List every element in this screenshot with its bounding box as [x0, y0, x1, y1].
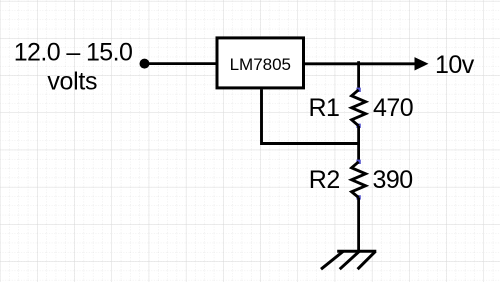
svg-text:12.0 – 15.0: 12.0 – 15.0 — [14, 38, 133, 66]
svg-text:LM7805: LM7805 — [230, 55, 291, 74]
arrow output terminal — [415, 57, 429, 70]
node: R2 top endpoint (blue handle) — [356, 160, 360, 164]
wire input to regulator — [145, 62, 218, 65]
svg-text:volts: volts — [47, 67, 97, 95]
svg-text:470: 470 — [373, 94, 413, 122]
node: R1 bottom endpoint (blue handle) — [356, 124, 360, 128]
ground symbol — [321, 251, 376, 269]
svg-text:10v: 10v — [435, 51, 475, 79]
regulator U1 LM7805 box — [217, 38, 304, 88]
label: input voltage 12.0 - 15.0 volts — [14, 38, 133, 95]
svg-text:R1: R1 — [309, 94, 340, 122]
node: input terminal dot — [140, 59, 150, 69]
wire regulator output — [305, 62, 416, 65]
wire R2 to ground — [357, 198, 360, 252]
node: R1 top endpoint (blue handle) — [356, 88, 360, 92]
wire R1 to R2 — [357, 126, 360, 162]
node: R2 bottom endpoint (blue handle) — [356, 195, 360, 199]
resistor R1 zigzag — [352, 90, 366, 126]
svg-text:R2: R2 — [309, 166, 340, 194]
svg-text:390: 390 — [373, 166, 413, 194]
wire output node to R1 — [357, 61, 360, 90]
resistor R2 zigzag — [352, 162, 366, 198]
wire regulator ground pin — [262, 89, 359, 143]
